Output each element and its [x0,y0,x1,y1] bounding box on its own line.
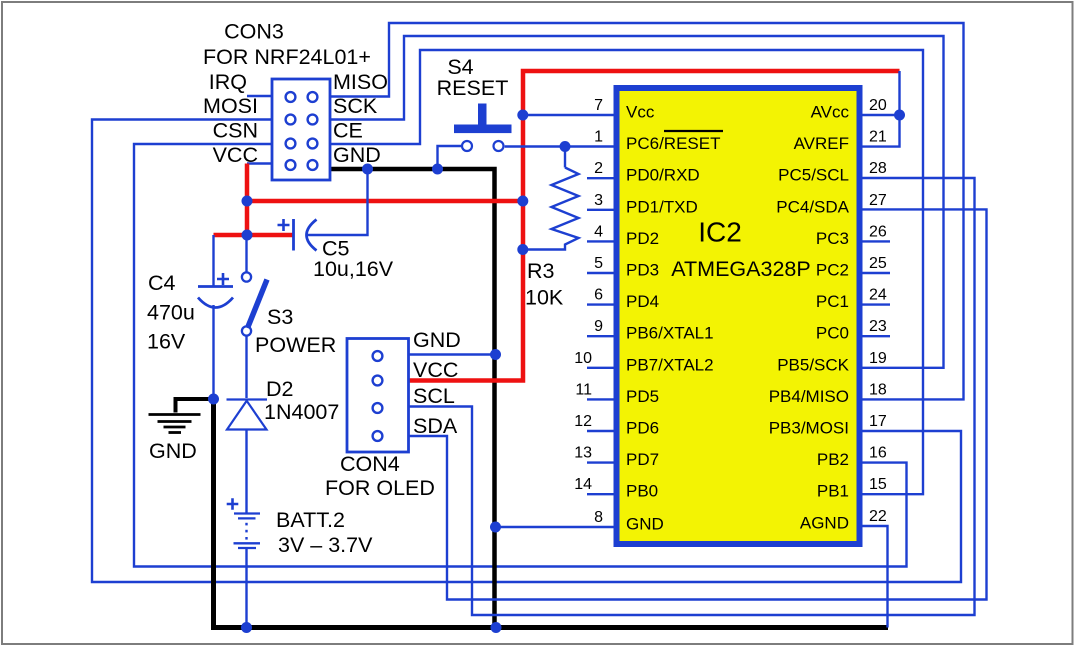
capacitor C4 [198,273,233,308]
svg-text:15: 15 [869,476,887,493]
svg-text:AVREF: AVREF [794,134,849,153]
svg-text:S3: S3 [267,305,293,329]
svg-text:FOR OLED: FOR OLED [325,476,435,500]
svg-text:AVcc: AVcc [811,103,850,122]
svg-text:D2: D2 [266,377,293,401]
svg-text:PB5/SCK: PB5/SCK [777,355,849,374]
svg-text:PD1/TXD: PD1/TXD [626,197,698,216]
junction ground node / C4 bottom [208,394,219,405]
svg-text:4: 4 [594,223,603,240]
svg-text:PD7: PD7 [626,450,659,469]
diode D2 [227,400,268,430]
svg-text:PC5/SCL: PC5/SCL [778,166,849,185]
svg-text:PC0: PC0 [816,324,849,343]
svg-text:28: 28 [869,160,887,177]
svg-text:470u: 470u [147,301,195,325]
junction VCC rail / red branch y201 [517,196,528,207]
svg-text:IC2: IC2 [698,217,742,248]
wire S4 left leg to ground rail [438,146,462,169]
wire CON4 GND [409,353,496,355]
svg-text:12: 12 [574,413,592,430]
wire VCC red rail: top and right vertical to CON4 VCC [409,71,900,381]
svg-text:SCL: SCL [413,384,455,408]
wire S3 bottom to D2 [245,336,247,399]
svg-text:GND: GND [149,439,197,463]
svg-text:VCC: VCC [413,358,458,382]
svg-text:SDA: SDA [413,414,458,438]
svg-text:PB1: PB1 [817,482,849,501]
resistor R3 [523,168,579,250]
junction VCC rail / pin7 Vcc [517,110,528,121]
junction bottom ground rail / vertical ground rail [491,622,502,633]
wire SDA net: CON4 SDA to IC pin 27 [409,209,987,599]
junction ground rail / S4 leg [432,164,443,175]
svg-text:11: 11 [575,381,592,398]
wire VCC red to C5 and C4 [214,233,294,238]
svg-text:CON3: CON3 [224,20,284,44]
IC left pin stubs [587,178,614,494]
svg-text:POWER: POWER [255,333,336,357]
svg-text:CSN: CSN [213,119,258,143]
svg-text:R3: R3 [527,259,555,283]
junction ground rail / C5 negative [362,164,373,175]
wire R3: pin1 node down, zigzag body, to VCC rail [564,147,566,168]
svg-text:MOSI: MOSI [203,94,258,118]
connector CON4 [347,339,409,453]
svg-text:21: 21 [869,129,887,146]
svg-text:IRQ: IRQ [209,70,247,94]
wire VCC red from CON3 VCC down [245,164,250,236]
wire CE net: CON3 CE to IC pin 15 [330,50,923,494]
wire pin8 GND [496,526,614,528]
svg-text:CON4: CON4 [340,452,400,476]
wire VCC red horizontal y=201 [247,199,523,204]
svg-text:FOR NRF24L01+: FOR NRF24L01+ [203,45,371,69]
svg-text:17: 17 [869,413,887,430]
junction bottom ground rail / battery minus [241,622,252,633]
svg-text:18: 18 [869,381,887,398]
junction AVcc / AVREF node [894,110,905,121]
wire GND black: left vertical and bottom rail [214,399,889,628]
svg-text:13: 13 [574,445,592,462]
svg-text:GND: GND [333,143,381,167]
capacitor C5 [278,219,317,251]
svg-text:SCK: SCK [333,94,378,118]
svg-text:PD5: PD5 [626,387,659,406]
wire pin1 RESET net [505,145,614,147]
svg-text:PC1: PC1 [816,292,849,311]
svg-text:3: 3 [594,192,603,209]
svg-text:PC3: PC3 [816,229,849,248]
svg-text:1N4007: 1N4007 [264,400,339,424]
svg-text:PD6: PD6 [626,419,659,438]
svg-text:PB6/XTAL1: PB6/XTAL1 [626,324,714,343]
ground symbol wire [176,399,217,413]
wire D2 anode to battery [245,430,247,514]
svg-text:5: 5 [594,255,603,272]
svg-text:ATMEGA328P: ATMEGA328P [671,257,810,281]
svg-text:PD0/RXD: PD0/RXD [626,166,700,185]
wire SCK net: CON3 SCK to IC pin 19 [330,36,944,368]
svg-text:20: 20 [869,97,887,114]
svg-text:19: 19 [869,350,887,367]
svg-text:PB0: PB0 [626,482,658,501]
junction ground rail / pin8 GND [490,522,501,533]
svg-text:16: 16 [869,445,887,462]
svg-text:2: 2 [594,160,603,177]
svg-text:23: 23 [869,318,887,335]
switch S4 push button [454,104,512,152]
wire S3 top [245,235,247,273]
svg-text:9: 9 [594,318,603,335]
svg-text:PB4/MISO: PB4/MISO [769,387,849,406]
svg-text:22: 22 [869,508,887,525]
svg-text:AGND: AGND [800,514,849,533]
svg-text:VCC: VCC [213,143,258,167]
wire battery minus to ground rail [245,549,247,628]
svg-text:3V – 3.7V: 3V – 3.7V [278,533,373,557]
wire GND black: CON3 GND to bottom rail [331,169,495,628]
svg-text:1: 1 [594,129,603,146]
wire SCL net: CON4 SCL to IC pin 28 [409,178,975,615]
connector CON3 [272,79,330,180]
text IC left pin labels [626,103,720,534]
svg-text:PD4: PD4 [626,292,659,311]
overline on RESET [664,130,723,132]
wire pin20 pin21 AVcc AVREF [863,71,900,115]
wire CON3 VCC stub [247,162,272,164]
wire pin22 AGND to ground rail [863,526,888,628]
svg-text:PC6/RESET: PC6/RESET [626,134,720,153]
svg-text:14: 14 [574,476,592,493]
svg-text:PB2: PB2 [817,450,849,469]
svg-text:Vcc: Vcc [626,103,655,122]
svg-text:10u,16V: 10u,16V [313,257,394,281]
svg-text:GND: GND [626,515,664,534]
svg-text:PB7/XTAL2: PB7/XTAL2 [626,355,714,374]
svg-text:PC2: PC2 [816,261,849,280]
text IC left pin numbers [574,97,603,526]
wire C5 negative to ground rail [307,169,368,235]
wire MOSI net: CON3 MOSI to IC pin 17 [92,120,961,583]
svg-text:8: 8 [594,509,603,526]
svg-text:PC4/SDA: PC4/SDA [776,197,849,216]
battery BATT.2 [227,498,260,548]
svg-text:PB3/MOSI: PB3/MOSI [769,419,849,438]
svg-text:10: 10 [574,350,592,367]
svg-text:6: 6 [594,287,603,304]
ground symbol [149,415,201,433]
svg-text:BATT.2: BATT.2 [276,508,345,532]
svg-text:27: 27 [869,192,887,209]
switch S3 power [242,272,267,335]
junction ground rail / CON4 GND [490,349,501,360]
svg-text:16V: 16V [147,330,186,354]
svg-text:25: 25 [869,255,887,272]
svg-text:24: 24 [869,287,887,304]
junction RESET net / R3 top [560,141,571,152]
wire CSN net: CON3 CSN to IC pin 16 [134,144,907,567]
wire MISO net: CON3 MISO to IC pin 18 [330,23,964,399]
wire C4 bottom to ground node [212,305,214,399]
svg-text:C4: C4 [148,271,176,295]
text IC right pin numbers [869,97,887,525]
svg-text:GND: GND [413,328,461,352]
junction red branch / CON3 VCC drop [242,196,253,207]
wire C4 top [212,235,214,287]
junction VCC rail / R3 bottom [517,244,528,255]
svg-text:PD3: PD3 [626,261,659,280]
IC right pin stubs (unconnected 26,25,24,23) [863,241,891,336]
svg-text:MISO: MISO [333,70,388,94]
text IC right pin labels [769,103,850,533]
svg-text:CE: CE [333,119,363,143]
svg-text:RESET: RESET [437,76,509,100]
svg-text:26: 26 [869,223,887,240]
svg-text:7: 7 [594,97,603,114]
wire pin7 Vcc [523,114,614,116]
wire IRQ stub [247,95,272,97]
IC U1 ATMEGA328P body [617,88,860,544]
svg-text:10K: 10K [525,286,564,310]
svg-text:PD2: PD2 [626,229,659,248]
junction red branch / C5 C4 S3 node [242,230,253,241]
